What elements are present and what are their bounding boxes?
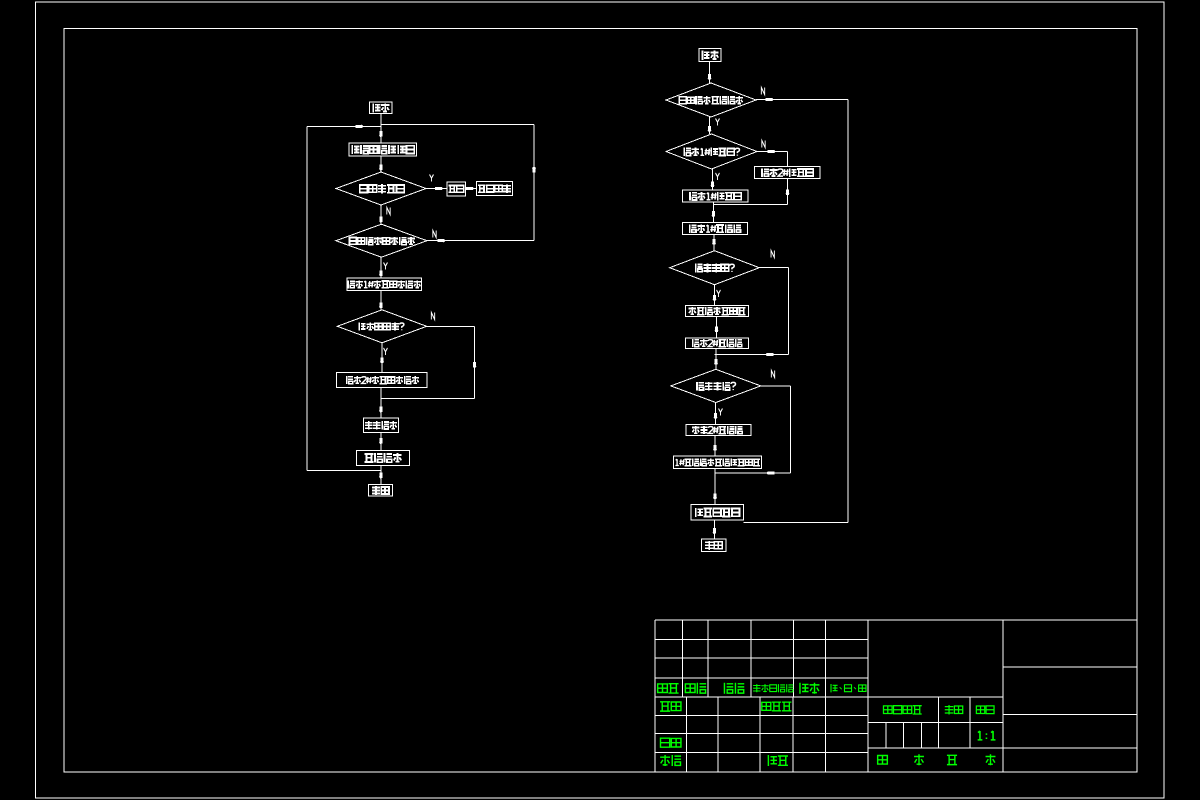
label 张 — [914, 754, 924, 765]
wire: d1->d2 — [709, 117, 711, 134]
wire: spine start->collect — [380, 113, 382, 142]
label Y — [717, 290, 721, 297]
label 批准 — [768, 755, 777, 766]
wire: ->pump1 — [712, 202, 714, 223]
wire: ->end + loop branch — [380, 466, 382, 485]
label 年、月、日 — [831, 684, 838, 692]
node L10: box 补水系统 — [363, 418, 398, 432]
label Y — [430, 174, 434, 181]
node R5: box 启动1#变频器 — [683, 190, 749, 202]
node R1: start box 开始 — [699, 49, 721, 62]
label N — [433, 230, 436, 237]
wire: far right return (N of circulation decision) — [756, 99, 848, 101]
label Y — [716, 173, 720, 180]
node R12: box 1#循环泵切换到变频运行 — [674, 456, 762, 469]
node L5: box 故障处理 — [476, 182, 512, 196]
wire: ->circulation box — [380, 432, 382, 450]
wire: start->d1 — [709, 62, 711, 84]
label 处数 — [685, 684, 695, 693]
title block: left lower horizontals — [655, 714, 868, 716]
arrow up on right return line — [533, 167, 536, 173]
wire: alarm->handle — [466, 188, 477, 190]
title block: middle small cell verticals — [885, 722, 887, 748]
label 标准化 — [762, 702, 771, 710]
wire: ->inverter freq box — [714, 469, 716, 505]
wire: right return line (N of heat-storage decision) — [533, 124, 535, 240]
node L9: box 启动2#锅炉蓄热系统 — [336, 373, 426, 388]
label 审核 — [660, 738, 669, 747]
title block: left edge — [654, 620, 656, 772]
label 更改文件号 — [753, 684, 760, 692]
title block: middle/right divider x=1003 — [1002, 620, 1004, 772]
label N — [762, 140, 765, 147]
wire: ->switch to vf run — [714, 436, 716, 457]
node R3: diamond 启动1#变频器? — [666, 134, 757, 169]
label N — [387, 207, 390, 214]
wire: collect->fault decision — [380, 156, 382, 172]
title block: left upper verticals — [682, 620, 684, 697]
node R13: box 变频器频率 — [691, 505, 744, 520]
wire: temp-small N bypass — [761, 385, 791, 387]
wire: fault Y branch — [426, 188, 447, 190]
wire: ->water box — [380, 387, 382, 418]
node L12: end box 结束 — [369, 485, 393, 497]
label 分区 — [724, 683, 733, 694]
wire: Y down — [381, 343, 383, 373]
label 标记 — [658, 684, 668, 693]
node R11: box 停止2#循环泵 — [686, 425, 751, 436]
wire: ->stop pump2 — [715, 403, 717, 425]
label N — [761, 87, 764, 94]
label 共 — [878, 756, 888, 765]
title block: middle horizontals — [868, 721, 1003, 723]
node L2: box 信号量数据采集 — [349, 143, 417, 156]
title block: middle verticals (stage row) — [937, 697, 939, 748]
wire: fault N down — [380, 205, 382, 224]
node R10: diamond 温差过小? — [671, 369, 761, 402]
wire: ->temp-diff-small decision — [715, 348, 717, 369]
label 工艺 — [660, 755, 670, 766]
label N — [431, 312, 434, 319]
wire: left loop-back line — [306, 126, 308, 470]
node R7: diamond 温差过大? — [670, 251, 760, 285]
node L7: box 启动1#锅炉蓄热系统 — [347, 278, 422, 291]
node R14: end box 结束 — [702, 539, 727, 552]
node L6: diamond 是否启动蓄热系统 — [336, 224, 427, 257]
node L4: box 报警 — [447, 182, 466, 196]
node R2: diamond 是否启动循环系统 — [666, 83, 756, 117]
arrow on loop-back merge — [356, 125, 363, 128]
arrow into collect box — [379, 131, 382, 137]
wire: ->power-freq box — [714, 285, 716, 306]
wire: N bypass right-down — [427, 325, 475, 327]
wire: d2 Y down — [712, 169, 714, 190]
node L8: diamond 供热量不足? — [337, 310, 426, 343]
title block: left upper horizontals — [655, 639, 868, 641]
wire: ->end — [713, 520, 715, 539]
node R8: box 切换到工频运行 — [686, 306, 749, 317]
node R9: box 启动2#循环泵 — [686, 338, 749, 349]
label 阶段标记 — [883, 706, 892, 714]
label 设计 — [660, 702, 670, 711]
title block: left/middle divider x=868 — [867, 620, 869, 772]
node L11: box 循环系统 — [357, 450, 410, 465]
wire: inverter2 down-merge — [787, 178, 789, 204]
wire: ->temp-diff-large decision — [713, 235, 715, 251]
node L3: diamond 是否有故障 — [336, 172, 426, 205]
wire: N branch to right return — [427, 240, 534, 242]
label Y — [384, 262, 388, 269]
node R4: box 启动2#变频器 — [755, 167, 821, 179]
title block: top line — [655, 619, 1137, 621]
wire: ->heat enough decision — [380, 291, 382, 310]
label 1:1 — [978, 731, 983, 740]
node R6: box 启动1#循环泵 — [683, 223, 748, 235]
label 第 — [947, 755, 957, 764]
label Y — [716, 118, 720, 125]
label 重量 — [945, 705, 954, 715]
title block: left lower verticals — [685, 697, 687, 772]
wire: ->pump2 — [716, 317, 718, 338]
label Y — [719, 408, 723, 415]
label 张 (2) — [986, 754, 996, 765]
wire: d2 N branch to inverter2 — [757, 151, 788, 153]
title block: row line y=697 spanning left+middle — [655, 696, 1003, 698]
wire: temp-large N bypass — [759, 267, 788, 269]
title block: right horizontals — [1003, 666, 1137, 668]
label N — [771, 250, 774, 257]
label 比例 — [976, 706, 984, 713]
label N — [771, 370, 774, 377]
label Y — [384, 348, 388, 355]
wire: ->start boiler1 — [380, 257, 382, 278]
node L1: start box 开始 — [370, 102, 392, 113]
label 签名 — [800, 683, 809, 694]
